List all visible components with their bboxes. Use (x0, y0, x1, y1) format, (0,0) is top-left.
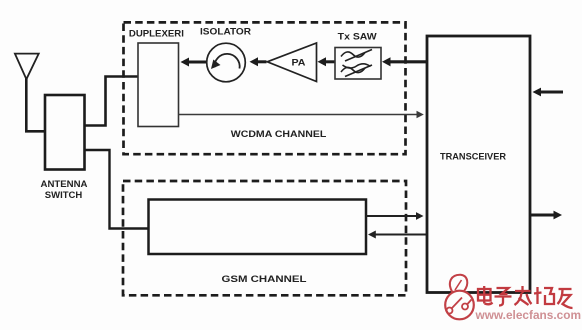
duplexer (129, 28, 184, 126)
wire antenna stem (26, 79, 45, 132)
wire arrow out of transceiver right bottom (530, 211, 562, 220)
watermark text you (558, 289, 573, 308)
watermark text fa (515, 286, 532, 305)
svg-text:WCDMA CHANNEL: WCDMA CHANNEL (231, 129, 327, 139)
wire arrow Tx SAW to PA (318, 57, 335, 66)
svg-text:DUPLEXERI: DUPLEXERI (129, 28, 184, 38)
svg-text:TRANSCEIVER: TRANSCEIVER (440, 151, 506, 162)
svg-text:ISOLATOR: ISOLATOR (200, 27, 252, 37)
wire arrow isolator to duplexer (181, 58, 207, 67)
transceiver (427, 36, 530, 293)
WCDMA channel dashed box (124, 22, 406, 154)
wire arrow PA to isolator (250, 57, 267, 66)
antenna (15, 54, 39, 80)
svg-text:PA: PA (292, 58, 307, 68)
wire arrow transceiver to Tx SAW (382, 57, 427, 66)
watermark text dian (478, 286, 493, 304)
wire switch to GSM module (85, 150, 149, 229)
label WCDMA CHANNEL (231, 129, 327, 139)
isolator U1 (200, 27, 252, 82)
watermark text zi (495, 288, 512, 306)
wire arrow into transceiver right top (533, 88, 564, 97)
PA amplifier (267, 43, 316, 82)
antenna switch (41, 95, 89, 200)
wire WCDMA Rx duplexer to transceiver (179, 111, 424, 119)
svg-text:ANTENNA: ANTENNA (41, 179, 89, 189)
watermark url (475, 308, 581, 322)
svg-text:Tx SAW: Tx SAW (338, 32, 378, 42)
Tx SAW filter (335, 32, 381, 79)
wire arrow GSM to transceiver (366, 212, 424, 220)
label GSM CHANNEL (222, 274, 307, 284)
svg-text:GSM CHANNEL: GSM CHANNEL (222, 274, 307, 284)
wire arrow transceiver to GSM (368, 231, 427, 239)
GSM channel dashed box (123, 181, 406, 295)
svg-text:SWITCH: SWITCH (45, 190, 83, 200)
GSM module (149, 200, 367, 255)
watermark text shao (534, 287, 554, 304)
wire switch to duplexer (85, 77, 139, 126)
watermark logo (445, 275, 474, 320)
svg-text:www.elecfans.com: www.elecfans.com (475, 308, 581, 322)
